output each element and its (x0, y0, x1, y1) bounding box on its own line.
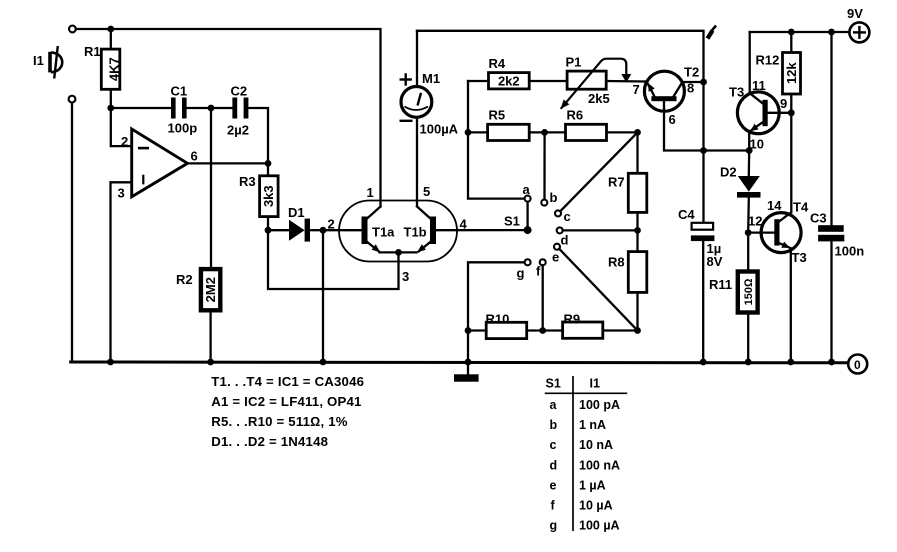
9V supply rail (750, 31, 850, 33)
svg-text:T3: T3 (729, 85, 744, 100)
node T2 collector (700, 79, 707, 86)
wire R12 column down to T4 collector (790, 113, 792, 212)
node R4/R5 riser (465, 129, 472, 136)
node R1 top (107, 26, 114, 33)
svg-text:8V: 8V (707, 254, 723, 269)
svg-text:100 nA: 100 nA (579, 458, 620, 472)
svg-text:4: 4 (460, 217, 468, 232)
svg-text:b: b (550, 190, 558, 205)
svg-text:C3: C3 (810, 211, 827, 226)
svg-text:8: 8 (687, 81, 694, 96)
node R1 bottom / feedback (107, 105, 114, 112)
svg-text:b: b (550, 418, 558, 432)
op-amp A1 (132, 129, 188, 197)
svg-text:e: e (552, 250, 559, 265)
svg-text:R5: R5 (489, 108, 506, 123)
svg-text:g: g (550, 519, 558, 533)
0V terminal (848, 355, 867, 374)
minus mark M1 (400, 120, 413, 122)
node ground rail (465, 359, 472, 366)
node C4 branch (700, 147, 707, 154)
svg-text:R4: R4 (489, 56, 506, 71)
svg-text:R6: R6 (567, 108, 584, 123)
svg-text:T3: T3 (792, 250, 807, 265)
meter M1 (401, 31, 432, 206)
svg-text:I1: I1 (590, 377, 600, 391)
svg-text:12k: 12k (784, 62, 799, 84)
svg-text:a: a (523, 182, 531, 197)
wire g to riser and ground (468, 262, 525, 374)
9V terminal (849, 22, 869, 42)
wire b riser (543, 132, 545, 199)
node R2 rail (207, 359, 214, 366)
contact d (557, 227, 563, 233)
resistor R10 (468, 322, 543, 338)
svg-text:R7: R7 (608, 175, 625, 190)
svg-text:14: 14 (767, 198, 782, 213)
capacitor C1 (171, 98, 211, 119)
transistor T4 (748, 213, 801, 362)
wire T3 collector riser (749, 32, 751, 94)
wire feedback row to C1 (111, 107, 171, 109)
node C4 rail (700, 359, 707, 366)
S1 range table (545, 376, 627, 533)
wire top rail M1 to T2 column (417, 31, 704, 223)
wire f drop (542, 265, 544, 330)
wire node to C2 (211, 107, 232, 109)
node R7/R8/d (634, 227, 641, 234)
svg-text:R3: R3 (239, 174, 256, 189)
resistor R6 (545, 124, 638, 140)
svg-text:3: 3 (402, 269, 409, 284)
svg-text:7: 7 (633, 82, 640, 97)
svg-text:1 µA: 1 µA (579, 478, 606, 492)
node D1 cathode / T1a base (320, 227, 327, 234)
ground rail (0 V) (71, 361, 848, 365)
resistor R7 (628, 132, 647, 230)
node R6/R7/c (634, 129, 641, 136)
node R10 left / ground stub (465, 327, 472, 334)
svg-text:T1. . .T4 = IC1 = CA3046: T1. . .T4 = IC1 = CA3046 (211, 374, 364, 389)
switch S1 pole (524, 202, 532, 235)
diode D1 (268, 219, 323, 242)
wire d (563, 229, 638, 231)
svg-text:2: 2 (121, 134, 128, 149)
node R12 top (788, 29, 795, 36)
svg-text:d: d (550, 458, 558, 472)
node R8/R9/e (634, 327, 641, 334)
svg-text:P1: P1 (566, 55, 582, 70)
potentiometer P1 (561, 59, 647, 109)
svg-text:3k3: 3k3 (261, 185, 276, 207)
resistor R9 (543, 322, 638, 338)
svg-text:100n: 100n (835, 244, 865, 259)
svg-text:S1: S1 (546, 377, 561, 391)
svg-text:g: g (517, 266, 525, 281)
wire node down to rail (322, 230, 324, 362)
transistor T1a (323, 207, 381, 253)
wire c diagonal (560, 132, 637, 211)
svg-text:R11: R11 (709, 277, 732, 292)
svg-text:100p: 100p (168, 121, 198, 136)
svg-text:T1a: T1a (372, 225, 395, 240)
svg-text:S1: S1 (504, 214, 520, 229)
transistor T3 (737, 92, 791, 151)
svg-text:C1: C1 (171, 84, 188, 99)
svg-text:T1b: T1b (404, 225, 427, 240)
svg-text:D1. . .D2 = 1N4148: D1. . .D2 = 1N4148 (211, 434, 328, 449)
node T3 emitter / D2 / C4 row (746, 147, 753, 154)
svg-text:6: 6 (191, 149, 198, 164)
svg-text:100µA: 100µA (420, 122, 459, 137)
capacitor C4 (691, 223, 715, 362)
node emitter junction (395, 249, 402, 256)
wire top-left rail to pin 1 of T1 (76, 29, 381, 207)
svg-text:c: c (564, 209, 571, 224)
svg-text:12: 12 (748, 214, 762, 229)
contact g (525, 259, 531, 265)
node C3 rail (828, 359, 835, 366)
svg-text:11: 11 (752, 78, 766, 93)
svg-text:10 nA: 10 nA (579, 438, 613, 452)
svg-text:R5. . .R10 = 511Ω, 1%: R5. . .R10 = 511Ω, 1% (211, 414, 347, 429)
svg-text:M1: M1 (422, 71, 440, 86)
svg-text:R2: R2 (176, 272, 193, 287)
svg-text:C4: C4 (678, 207, 695, 222)
resistor R11 (738, 233, 758, 362)
svg-text:T2: T2 (684, 65, 699, 80)
svg-text:a: a (550, 398, 558, 412)
resistor R3 (260, 163, 279, 230)
diode D2 (737, 151, 761, 233)
svg-text:R1: R1 (84, 44, 101, 59)
svg-text:100 pA: 100 pA (579, 398, 620, 412)
svg-text:C2: C2 (231, 84, 248, 99)
wire break mark (708, 26, 717, 39)
svg-text:f: f (536, 264, 541, 279)
wire pin 3 return to R3 node (268, 230, 399, 289)
node on rail (320, 359, 327, 366)
wire left input down to ground rail (72, 103, 78, 363)
node R5/R6/b (541, 129, 548, 136)
resistor R2 (201, 269, 220, 362)
node T3 base / R12 (788, 109, 795, 116)
node R11 rail (745, 359, 752, 366)
resistor R5 (468, 124, 545, 140)
svg-text:100 µA: 100 µA (579, 519, 620, 533)
svg-text:D2: D2 (720, 165, 737, 180)
node R3 / D1 / T1 emitter return (265, 227, 272, 234)
contact a (525, 196, 531, 202)
wire op-amp pin 2 input (111, 108, 132, 146)
node T4 emitter rail (787, 359, 794, 366)
resistor R4 (468, 73, 567, 89)
resistor R8 (628, 230, 647, 330)
node C3 top (828, 29, 835, 36)
node pin3 rail (107, 359, 114, 366)
ground symbol (454, 374, 479, 381)
transistor T2 (644, 71, 748, 150)
svg-text:1 nA: 1 nA (579, 418, 606, 432)
svg-text:1: 1 (367, 185, 374, 200)
capacitor C3 (818, 32, 844, 362)
contact e (554, 244, 560, 250)
dual transistor T1 envelope (339, 201, 457, 262)
wire riser to R4/R5/a (468, 81, 525, 199)
svg-text:d: d (561, 233, 569, 248)
contact f (540, 259, 546, 265)
svg-text:2M2: 2M2 (203, 277, 218, 302)
input terminal lower (69, 96, 76, 103)
wire emitter bus T1 (380, 251, 417, 253)
svg-text:4K7: 4K7 (106, 57, 121, 81)
svg-text:R8: R8 (608, 255, 625, 270)
svg-text:2k2: 2k2 (498, 74, 520, 89)
svg-text:c: c (550, 438, 557, 452)
contact b (541, 200, 547, 206)
svg-text:150Ω: 150Ω (743, 278, 755, 305)
contact c (555, 210, 561, 216)
wire op-amp output (188, 162, 269, 164)
svg-text:A1 = IC2 = LF411, OP41: A1 = IC2 = LF411, OP41 (211, 394, 361, 409)
resistor R1 (101, 29, 121, 108)
svg-text:3: 3 (118, 186, 125, 201)
node R9/R10/f (539, 327, 546, 334)
svg-text:T4: T4 (793, 200, 809, 215)
svg-text:R9: R9 (564, 312, 581, 327)
svg-text:6: 6 (669, 112, 676, 127)
notes text (211, 374, 364, 449)
transistor T1b (417, 207, 525, 253)
svg-text:2µ2: 2µ2 (227, 123, 249, 138)
wire R2 riser (210, 108, 212, 269)
svg-text:10 µA: 10 µA (579, 499, 613, 513)
svg-text:D1: D1 (288, 205, 305, 220)
wire e diagonal (559, 249, 637, 331)
node output / C2 / R3 (265, 160, 272, 167)
svg-text:I1: I1 (33, 53, 44, 68)
svg-text:2k5: 2k5 (588, 91, 610, 106)
wire op-amp pin 3 down to ground rail (111, 182, 132, 362)
input terminal upper (69, 26, 76, 33)
svg-text:R10: R10 (486, 312, 510, 327)
capacitor C2 (232, 98, 268, 164)
svg-text:R12: R12 (756, 53, 780, 68)
resistor R12 (783, 32, 801, 113)
node C1/C2/R2 (208, 105, 215, 112)
plus mark M1 (400, 73, 412, 85)
node D2 / T4 base / R11 (745, 229, 752, 236)
svg-text:9: 9 (780, 96, 787, 111)
svg-text:5: 5 (423, 184, 430, 199)
svg-text:9V: 9V (847, 6, 863, 21)
svg-text:0: 0 (854, 358, 861, 372)
svg-text:e: e (550, 478, 557, 492)
I1 current source symbol (50, 46, 62, 79)
